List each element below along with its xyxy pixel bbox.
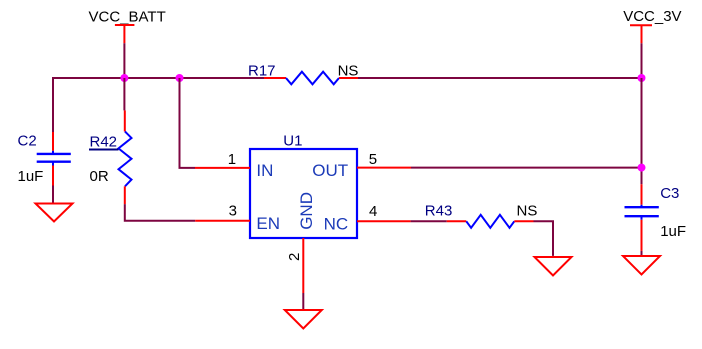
capacitor C2: [18, 132, 71, 186]
junction dot at VCC_BATT / main net: [120, 74, 128, 82]
pin 3 EN: [195, 220, 250, 222]
wire main horizontal net left segment: [52, 77, 264, 79]
wire pin2 to ground: [302, 293, 304, 309]
svg-text:1uF: 1uF: [18, 168, 44, 185]
pin 1 IN: [195, 167, 250, 169]
svg-text:1: 1: [228, 151, 236, 168]
power port VCC_BATT: [89, 8, 166, 43]
junction dot at VCC_3V / main net: [638, 74, 646, 82]
svg-text:EN: EN: [256, 214, 280, 233]
wire VCC_3V column down to C3: [641, 78, 643, 184]
svg-text:R43: R43: [425, 203, 453, 220]
wire IN branch vertical and horizontal: [180, 78, 196, 168]
ground below C3: [623, 256, 660, 275]
wire R43 to ground corner: [534, 221, 554, 256]
svg-text:GND: GND: [297, 192, 316, 230]
wire main horizontal net right segment: [358, 77, 643, 79]
svg-text:1uF: 1uF: [660, 223, 686, 240]
ground below C2: [36, 204, 73, 222]
pin 5 OUT: [357, 167, 411, 169]
power port VCC_3V: [623, 8, 681, 43]
wire C3 bottom to ground: [641, 251, 643, 255]
op-amp U1: [195, 132, 411, 293]
wire OUT to VCC_3V column: [411, 167, 643, 169]
wire VCC_BATT to main net: [123, 43, 125, 78]
svg-text:U1: U1: [283, 132, 302, 149]
resistor R17: [248, 63, 358, 85]
pin 2 GND: [302, 238, 304, 293]
wire NC pin to R43: [411, 220, 447, 222]
pin 4 NC: [357, 220, 411, 222]
svg-text:C3: C3: [660, 185, 679, 202]
wire VCC_3V down to main horizontal net: [641, 43, 643, 78]
junction dot at OUT / VCC_3V column: [638, 164, 646, 172]
svg-text:NC: NC: [324, 214, 349, 233]
svg-text:R42: R42: [90, 133, 118, 150]
svg-text:R17: R17: [248, 63, 276, 80]
svg-text:NS: NS: [338, 63, 359, 80]
svg-text:C2: C2: [18, 132, 37, 149]
svg-text:IN: IN: [256, 161, 273, 180]
svg-text:4: 4: [369, 203, 377, 220]
svg-text:NS: NS: [517, 203, 538, 220]
resistor R42: [89, 78, 132, 204]
junction dot at IN branch / main net: [176, 74, 184, 82]
svg-text:5: 5: [369, 151, 377, 168]
capacitor C3: [625, 184, 687, 251]
svg-text:0R: 0R: [90, 168, 109, 185]
svg-text:VCC_BATT: VCC_BATT: [89, 8, 166, 25]
wire left vertical down to C2: [52, 77, 54, 132]
svg-text:2: 2: [286, 253, 303, 261]
svg-text:OUT: OUT: [312, 161, 348, 180]
ground below pin 2: [285, 310, 322, 329]
wire R42 bottom to EN pin: [125, 204, 195, 221]
resistor R43: [425, 203, 538, 228]
svg-text:VCC_3V: VCC_3V: [623, 8, 681, 25]
wire C2 bottom to ground: [52, 186, 54, 203]
svg-text:3: 3: [229, 203, 237, 220]
ground below R43: [535, 257, 572, 276]
